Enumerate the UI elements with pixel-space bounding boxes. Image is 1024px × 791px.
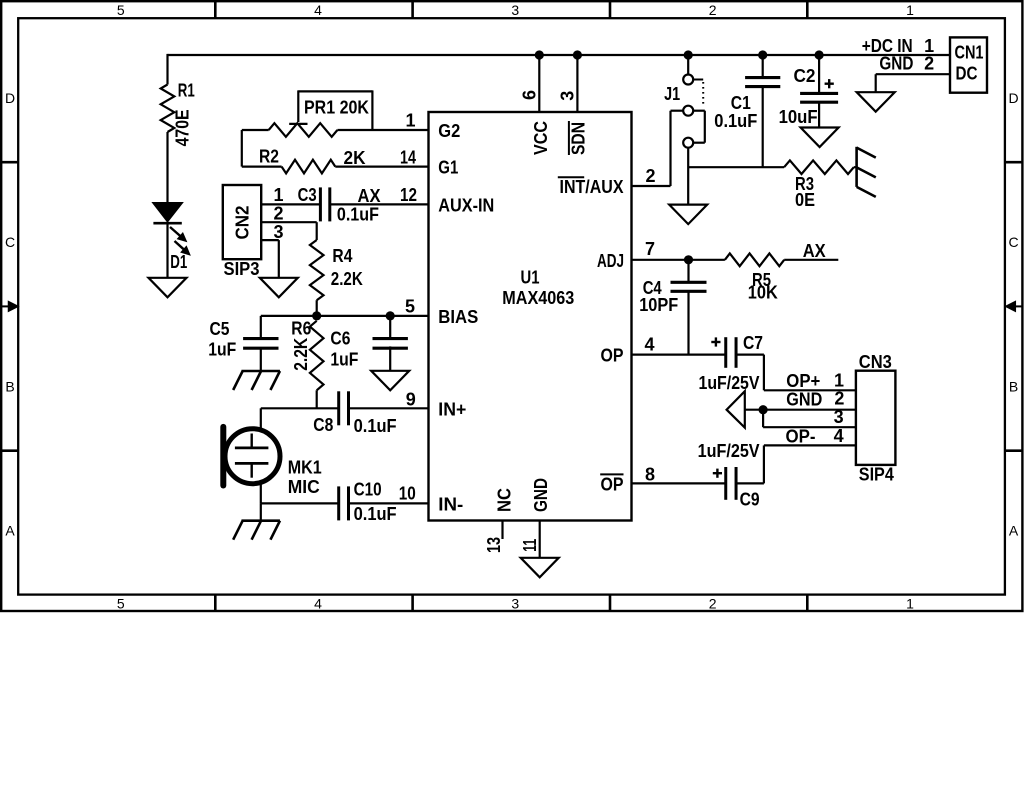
resistor R5 10K bbox=[725, 253, 784, 302]
resistor R3 0E bbox=[784, 160, 854, 210]
svg-text:B: B bbox=[5, 378, 14, 394]
ground (C2) bbox=[801, 128, 839, 148]
wire R2 left bbox=[242, 166, 282, 168]
wire BIAS net bbox=[261, 315, 429, 317]
resistor R2 2K bbox=[259, 146, 366, 173]
resistor R4 2.2K bbox=[310, 240, 363, 300]
svg-text:VCC: VCC bbox=[531, 121, 551, 155]
junction (C1 on rail) bbox=[758, 50, 767, 59]
svg-text:3: 3 bbox=[511, 595, 519, 611]
svg-text:C2: C2 bbox=[794, 66, 816, 86]
chassis ground (C5) bbox=[241, 370, 280, 373]
svg-text:4: 4 bbox=[314, 595, 322, 611]
svg-text:10uF: 10uF bbox=[779, 107, 818, 127]
svg-text:BIAS: BIAS bbox=[438, 307, 478, 327]
svg-text:C3: C3 bbox=[298, 185, 317, 205]
wire C7 to OP+ row bbox=[736, 354, 764, 356]
svg-text:MK1: MK1 bbox=[288, 458, 322, 478]
svg-text:B: B bbox=[1009, 378, 1018, 394]
capacitor C8 0.1uF bbox=[313, 391, 396, 436]
svg-text:OP-: OP- bbox=[786, 427, 816, 447]
svg-text:1: 1 bbox=[834, 371, 844, 391]
junction (J1 on rail) bbox=[684, 50, 693, 59]
svg-text:SIP4: SIP4 bbox=[859, 464, 894, 484]
junction (C2 on rail) bbox=[815, 50, 824, 59]
ground (C6) bbox=[371, 371, 409, 391]
wire C6 to ground bbox=[389, 346, 391, 370]
junction (VCC on rail) bbox=[535, 50, 544, 59]
svg-text:IN-: IN- bbox=[438, 494, 463, 514]
junction (C6 on BIAS) bbox=[386, 311, 395, 320]
antenna / chassis (R3) bbox=[857, 147, 876, 197]
svg-text:CN1: CN1 bbox=[955, 42, 984, 62]
svg-text:GND: GND bbox=[786, 389, 822, 409]
svg-text:2: 2 bbox=[709, 2, 717, 18]
svg-text:10: 10 bbox=[399, 483, 416, 503]
svg-text:3: 3 bbox=[557, 91, 577, 101]
svg-text:3: 3 bbox=[511, 2, 519, 18]
svg-text:2K: 2K bbox=[344, 148, 366, 168]
connector CN3 SIP4 bbox=[856, 352, 896, 485]
capacitor C10 0.1uF bbox=[339, 480, 397, 524]
wire J1 to ground/R3 bbox=[687, 148, 689, 205]
wire C9 to OP- row bbox=[736, 482, 764, 484]
ground (J1) bbox=[669, 205, 707, 225]
svg-text:1uF/25V: 1uF/25V bbox=[698, 441, 760, 461]
wire VCC pin 6 bbox=[538, 55, 540, 112]
svg-text:GND: GND bbox=[879, 54, 913, 74]
wire pot to G2 pin bbox=[337, 129, 428, 131]
ground (D1) bbox=[149, 278, 187, 298]
svg-text:C10: C10 bbox=[354, 480, 382, 500]
wire GND pin 11 bbox=[539, 521, 541, 558]
wire BIAS to C6 bbox=[389, 316, 391, 338]
capacitor C4 10PF bbox=[639, 260, 706, 355]
svg-text:14: 14 bbox=[400, 148, 416, 168]
svg-text:AX: AX bbox=[803, 241, 826, 261]
wire CN1 GND bbox=[876, 73, 950, 75]
svg-text:NC: NC bbox=[494, 488, 514, 512]
LED D1 bbox=[153, 203, 190, 272]
wire +V rail bbox=[168, 54, 951, 56]
junction (R4/R6 on BIAS) bbox=[312, 311, 321, 320]
svg-text:1: 1 bbox=[405, 111, 415, 131]
svg-text:3: 3 bbox=[834, 407, 844, 427]
svg-text:CN3: CN3 bbox=[859, 352, 892, 372]
wire SDN pin 3 bbox=[576, 55, 578, 112]
svg-text:C: C bbox=[5, 234, 15, 250]
capacitor C5 1uF bbox=[208, 319, 278, 360]
svg-text:C: C bbox=[1009, 234, 1019, 250]
wire R4 to BIAS bbox=[316, 300, 318, 316]
wire CN2 pin 3 to ground bbox=[261, 239, 279, 241]
wire R5 to AX bbox=[784, 259, 838, 261]
svg-text:12: 12 bbox=[400, 185, 417, 205]
svg-text:11: 11 bbox=[520, 539, 540, 552]
svg-text:10K: 10K bbox=[748, 283, 778, 303]
microphone MK1 MIC bbox=[223, 427, 321, 497]
stub NC pin 13 bbox=[501, 521, 503, 540]
ground (U1 GND) bbox=[521, 558, 559, 578]
junction (GND row) bbox=[759, 405, 768, 414]
wire IN- left bbox=[261, 502, 339, 504]
svg-text:AUX-IN: AUX-IN bbox=[438, 195, 494, 215]
svg-text:0.1uF: 0.1uF bbox=[354, 504, 397, 524]
svg-text:SDN: SDN bbox=[569, 122, 589, 155]
svg-text:5: 5 bbox=[117, 595, 125, 611]
op-amp U1 MAX4063 bbox=[429, 112, 632, 521]
svg-text:1uF: 1uF bbox=[330, 349, 358, 369]
wire BIAS to C5 bbox=[260, 316, 262, 338]
svg-text:IN+: IN+ bbox=[438, 399, 466, 419]
wire INT/AUX pin 2 to J1 bbox=[632, 185, 671, 187]
svg-text:D1: D1 bbox=[170, 252, 187, 272]
svg-text:A: A bbox=[5, 523, 15, 539]
chassis ground (MK1) bbox=[241, 519, 280, 522]
svg-text:G1: G1 bbox=[438, 158, 458, 178]
svg-text:8: 8 bbox=[645, 465, 655, 485]
svg-text:2: 2 bbox=[709, 595, 717, 611]
wire CN2 pin 1 to C3 bbox=[261, 203, 319, 205]
svg-text:1uF: 1uF bbox=[208, 340, 236, 360]
wire C10 to IN- pin bbox=[348, 502, 428, 504]
svg-text:6: 6 bbox=[520, 90, 540, 100]
svg-text:C6: C6 bbox=[330, 329, 350, 349]
connector CN2 SIP3 bbox=[223, 185, 261, 279]
svg-text:A: A bbox=[1009, 523, 1019, 539]
wire pot left bbox=[242, 129, 269, 131]
svg-text:OP+: OP+ bbox=[786, 371, 820, 391]
wire R6 to IN+ net bbox=[316, 390, 318, 408]
svg-text:2: 2 bbox=[274, 204, 284, 224]
svg-text:MIC: MIC bbox=[288, 477, 320, 497]
svg-text:D: D bbox=[5, 90, 15, 106]
svg-text:INT/AUX: INT/AUX bbox=[560, 177, 624, 197]
svg-text:G2: G2 bbox=[438, 121, 460, 141]
potentiometer PR1 20K bbox=[269, 90, 373, 136]
svg-text:470E: 470E bbox=[173, 109, 193, 146]
svg-text:C5: C5 bbox=[210, 319, 230, 339]
wire MK1 to IN- net bbox=[260, 482, 262, 504]
svg-text:J1: J1 bbox=[664, 84, 680, 104]
svg-text:C8: C8 bbox=[313, 415, 333, 435]
svg-text:2: 2 bbox=[646, 166, 656, 186]
svg-text:CN2: CN2 bbox=[233, 205, 253, 239]
capacitor C9 1uF/25V bbox=[698, 441, 760, 509]
wire OP+ to CN3 pin 1 bbox=[764, 389, 856, 391]
wire OP pin 4 bbox=[632, 354, 726, 356]
svg-text:10PF: 10PF bbox=[639, 295, 678, 315]
capacitor C3 0.1uF bbox=[298, 185, 379, 225]
svg-text:4: 4 bbox=[834, 426, 844, 446]
svg-text:OP: OP bbox=[601, 346, 624, 366]
jumper J1 bbox=[664, 55, 705, 148]
ground (CN1) bbox=[857, 92, 895, 112]
svg-text:R1: R1 bbox=[178, 81, 195, 101]
wire MK1 to ground bbox=[260, 503, 262, 520]
svg-text:0.1uF: 0.1uF bbox=[714, 111, 757, 131]
wire CN2 pin 2 to R4 bbox=[261, 221, 317, 223]
svg-text:5: 5 bbox=[405, 296, 415, 316]
capacitor C2 10uF bbox=[779, 55, 839, 128]
capacitor C6 1uF bbox=[330, 329, 408, 370]
capacitor C7 1uF/25V bbox=[699, 333, 764, 393]
svg-text:R6: R6 bbox=[291, 319, 311, 339]
svg-text:R2: R2 bbox=[259, 146, 279, 166]
resistor R1 470E bbox=[161, 81, 195, 147]
svg-text:2.2K: 2.2K bbox=[291, 338, 311, 371]
wire C8 to IN+ pin bbox=[348, 407, 428, 409]
svg-text:5: 5 bbox=[117, 2, 125, 18]
resistor R6 2.2K bbox=[291, 319, 324, 391]
capacitor C1 0.1uF bbox=[714, 55, 780, 167]
svg-text:0.1uF: 0.1uF bbox=[354, 416, 397, 436]
wire C3 to AUX-IN pin bbox=[330, 203, 429, 205]
wire C5 to ground bbox=[260, 347, 262, 371]
wire OP pin 8 bbox=[632, 482, 726, 484]
wire rail to R1 bbox=[166, 54, 168, 85]
svg-text:C7: C7 bbox=[743, 333, 763, 353]
svg-text:R4: R4 bbox=[332, 246, 352, 266]
svg-text:SIP3: SIP3 bbox=[224, 259, 260, 279]
svg-text:MAX4063: MAX4063 bbox=[502, 288, 574, 308]
wire IN+ left bbox=[261, 407, 339, 409]
wire R3 to antenna bbox=[854, 166, 857, 168]
svg-text:13: 13 bbox=[484, 537, 504, 553]
svg-text:4: 4 bbox=[645, 335, 655, 355]
wire GND to CN3 pin 3 bbox=[762, 410, 764, 428]
svg-text:2: 2 bbox=[924, 54, 934, 74]
ground (CN2) bbox=[260, 278, 298, 298]
arrow (GND marker) bbox=[727, 391, 745, 427]
svg-text:3: 3 bbox=[274, 222, 284, 242]
svg-text:2: 2 bbox=[834, 389, 844, 409]
junction (SDN on rail) bbox=[573, 50, 582, 59]
svg-text:GND: GND bbox=[531, 478, 551, 512]
svg-text:ADJ: ADJ bbox=[597, 251, 624, 271]
svg-text:C9: C9 bbox=[740, 489, 760, 509]
svg-text:OP: OP bbox=[601, 474, 624, 494]
svg-text:DC: DC bbox=[956, 64, 978, 84]
wire ADJ pin 7 bbox=[632, 259, 725, 261]
svg-text:9: 9 bbox=[406, 390, 416, 410]
svg-text:1: 1 bbox=[274, 185, 284, 205]
svg-text:4: 4 bbox=[314, 2, 322, 18]
junction (C4 on ADJ) bbox=[684, 255, 693, 264]
wire IN+ to MK1 bbox=[260, 408, 262, 430]
svg-text:PR1 20K: PR1 20K bbox=[304, 97, 369, 117]
wire R1 to D1 bbox=[166, 132, 168, 202]
wire OP- to CN3 pin 4 bbox=[764, 444, 856, 446]
svg-text:7: 7 bbox=[645, 239, 655, 259]
wire GND row to CN3 pin 2 bbox=[745, 409, 856, 411]
svg-text:AX: AX bbox=[358, 186, 381, 206]
svg-text:2.2K: 2.2K bbox=[331, 269, 363, 289]
svg-text:D: D bbox=[1009, 90, 1019, 106]
wire R2 to G1 pin bbox=[335, 166, 428, 168]
svg-text:0E: 0E bbox=[795, 190, 815, 210]
svg-text:1: 1 bbox=[906, 2, 914, 18]
svg-text:1: 1 bbox=[906, 595, 914, 611]
connector CN1 DC bbox=[950, 37, 987, 92]
wire D1 to ground bbox=[166, 223, 168, 278]
svg-text:0.1uF: 0.1uF bbox=[337, 205, 379, 225]
svg-text:U1: U1 bbox=[521, 267, 540, 287]
svg-text:1uF/25V: 1uF/25V bbox=[699, 373, 760, 393]
